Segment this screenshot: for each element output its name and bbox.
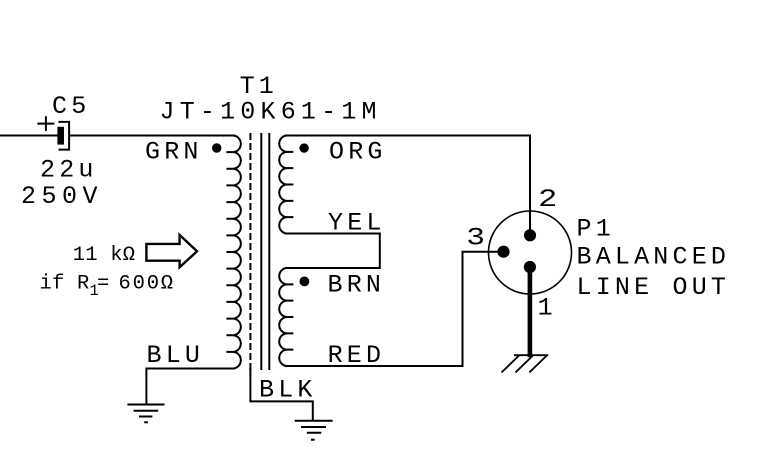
wire BLK shield to ground — [250, 369, 312, 420]
XLR pin 1 contact — [524, 261, 536, 273]
svg-text:BRN: BRN — [328, 271, 386, 300]
svg-text:LINE OUT: LINE OUT — [577, 273, 731, 302]
svg-text:BLU: BLU — [147, 341, 205, 370]
svg-text:2: 2 — [538, 185, 563, 214]
svg-text:BLK: BLK — [259, 376, 317, 405]
wire YEL to BRN series link — [286, 234, 380, 269]
arrow impedance pointer — [146, 235, 197, 267]
phase dot GRN — [212, 143, 221, 152]
wire ORG secondary top to XLR pin 2 — [286, 136, 530, 231]
transformer T1 secondary lower winding — [279, 268, 292, 366]
transformer T1 primary winding — [227, 136, 240, 369]
svg-text:250V: 250V — [21, 182, 103, 211]
wire pin 1 to chassis ground (thick) — [528, 266, 533, 355]
svg-text:RED: RED — [328, 341, 386, 370]
svg-text:YEL: YEL — [328, 209, 386, 238]
svg-text:3: 3 — [466, 223, 490, 252]
phase dot ORG — [299, 143, 308, 152]
svg-text:P1: P1 — [577, 214, 615, 243]
svg-text:GRN: GRN — [145, 138, 203, 167]
transformer T1 core lines — [261, 134, 269, 369]
svg-text:C5: C5 — [52, 92, 90, 121]
chassis ground — [502, 355, 547, 372]
ground BLU (earth) — [128, 405, 163, 423]
XLR pin 2 contact — [524, 229, 536, 241]
svg-text:22u: 22u — [40, 155, 98, 184]
wire RED to XLR pin 3 — [286, 252, 497, 366]
svg-text:BALANCED: BALANCED — [577, 243, 731, 272]
phase dot BRN — [300, 277, 310, 287]
capacitor C5 — [57, 122, 69, 150]
wire input left to C5 — [0, 135, 57, 137]
XLR connector P1 body — [489, 211, 572, 294]
svg-text:JT-10K61-1M: JT-10K61-1M — [160, 98, 382, 127]
svg-text:1: 1 — [538, 294, 557, 323]
plus polarity mark — [38, 117, 53, 130]
svg-text:ORG: ORG — [329, 138, 387, 167]
XLR pin 3 contact — [497, 246, 509, 258]
svg-text:11 kΩ: 11 kΩ — [73, 244, 136, 267]
transformer T1 secondary upper winding — [279, 136, 292, 234]
transformer T1 shield (dashed) — [249, 134, 251, 369]
wire C5 to T1 primary top — [71, 135, 234, 137]
ground BLK (earth) — [296, 421, 332, 440]
wire BLU primary bottom to ground — [146, 369, 233, 404]
